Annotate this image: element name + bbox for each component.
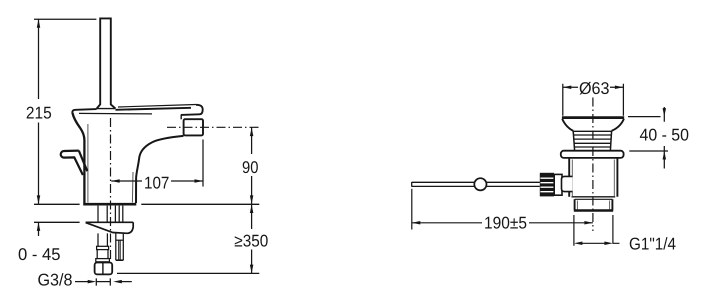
svg-text:0 - 45: 0 - 45 [18,245,61,264]
svg-text:G1"1/4: G1"1/4 [629,234,676,253]
svg-text:107: 107 [144,173,169,192]
svg-text:Ø63: Ø63 [579,79,610,98]
svg-text:90: 90 [242,158,258,177]
svg-text:G3/8: G3/8 [38,270,73,289]
svg-text:40 - 50: 40 - 50 [640,125,690,144]
svg-text:215: 215 [26,104,52,123]
svg-text:190±5: 190±5 [484,214,527,233]
svg-text:≥350: ≥350 [234,232,268,251]
